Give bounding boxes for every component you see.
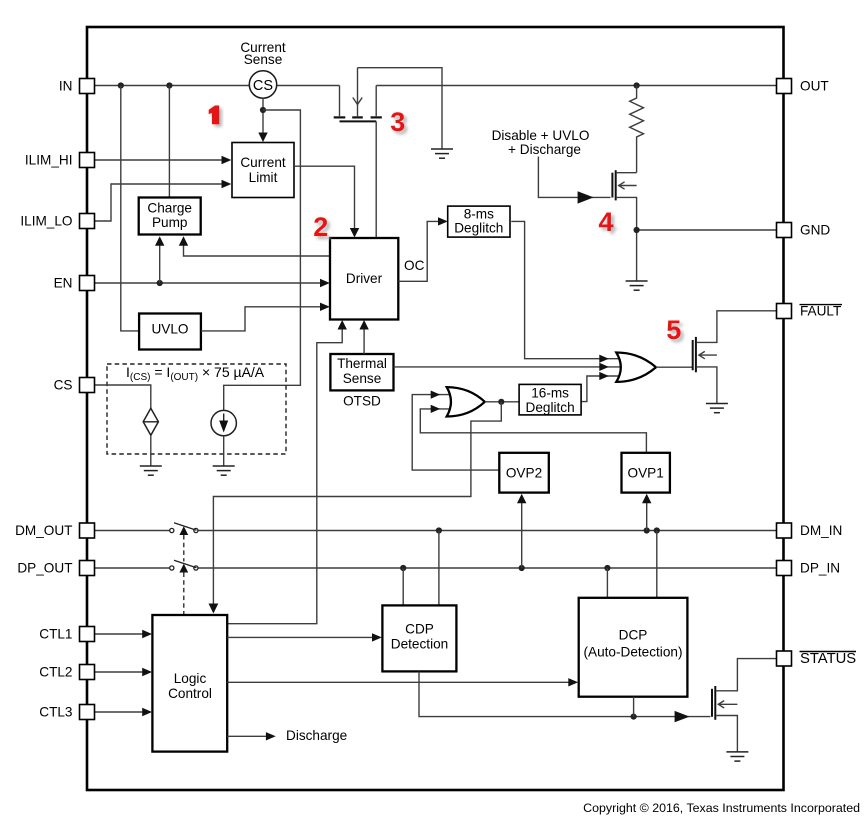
- wire: Current Limit output to Driver: [294, 166, 355, 235]
- svg-text:DP_OUT: DP_OUT: [17, 561, 72, 576]
- current source I1 (circle): [211, 410, 236, 435]
- pin DP_OUT: [80, 561, 95, 576]
- switch S1 on DM line: [170, 523, 198, 535]
- svg-text:DM_OUT: DM_OUT: [15, 523, 72, 538]
- wire: Logic Control to CDP Detection: [227, 636, 379, 638]
- wire: CTL1 input: [95, 633, 151, 635]
- wire: Thermal Sense output to OR gate: [394, 366, 627, 368]
- svg-text:CS: CS: [253, 78, 273, 94]
- node: junction to DCP: [631, 714, 637, 720]
- ground: below FET5: [706, 404, 728, 413]
- svg-text:Detection: Detection: [391, 637, 448, 652]
- pin CTL2: [80, 665, 95, 680]
- wire: CS sense line to current source: [224, 110, 301, 410]
- svg-text:Logic: Logic: [174, 671, 207, 686]
- transistor Q6 status FET: [712, 659, 777, 752]
- svg-text:16-ms: 16-ms: [531, 386, 569, 401]
- pin CS: [80, 378, 95, 393]
- ground: below current source: [213, 466, 235, 475]
- node: CS sense junction: [260, 107, 266, 113]
- svg-text:Sense: Sense: [343, 371, 382, 386]
- wire: junction up to DCP bottom: [633, 697, 635, 717]
- wire: diamond to ground: [150, 435, 152, 466]
- svg-text:IN: IN: [59, 79, 73, 94]
- svg-text:Charge: Charge: [147, 201, 192, 216]
- svg-text:CDP: CDP: [405, 622, 434, 637]
- wire: OUT rail from FET drain to OUT pin: [376, 85, 776, 87]
- svg-text:DCP: DCP: [619, 628, 648, 643]
- wire: DM to DCP: [656, 531, 658, 598]
- wire: ILIM_HI to Current Limit: [95, 159, 230, 161]
- svg-text:Control: Control: [168, 686, 212, 701]
- wire: IN to Charge Pump top: [168, 86, 170, 198]
- wire: circle source to ground: [223, 436, 225, 466]
- wire: 8-ms Deglitch output to OR gate: [511, 221, 623, 358]
- node: IN junction to Charge Pump: [166, 82, 172, 88]
- ground: below FET4: [626, 281, 648, 290]
- svg-text:5: 5: [666, 315, 681, 345]
- svg-text:Deglitch: Deglitch: [454, 220, 503, 235]
- svg-text:+ Discharge: + Discharge: [508, 142, 581, 157]
- svg-text:Deglitch: Deglitch: [526, 400, 575, 415]
- red number 1: [211, 108, 222, 127]
- wire: OR gate output to 16-ms Deglitch: [485, 401, 520, 403]
- svg-text:3: 3: [390, 107, 405, 137]
- wire: gate drive for FET4: [538, 157, 610, 198]
- svg-text:Discharge: Discharge: [286, 728, 347, 743]
- svg-text:Thermal: Thermal: [337, 356, 387, 371]
- svg-text:ILIM_LO: ILIM_LO: [20, 214, 72, 229]
- svg-text:OVP2: OVP2: [506, 466, 542, 481]
- transistor Q4 discharge FET (4): [612, 170, 636, 281]
- wire: Driver to Charge Pump second input: [184, 239, 331, 257]
- pin EN: [80, 276, 95, 291]
- block Charge Pump: [139, 198, 201, 235]
- svg-text:Pump: Pump: [152, 215, 188, 230]
- wire: Driver OC output to 8-ms Deglitch: [398, 221, 445, 281]
- ground: FET3 body: [431, 149, 453, 158]
- resistor R1 discharge: [630, 86, 644, 173]
- block Thermal Sense: [330, 354, 393, 390]
- block OVP2: [499, 453, 549, 493]
- svg-text:CTL2: CTL2: [39, 665, 72, 680]
- block Current Limit: [232, 143, 294, 198]
- block 8-ms Deglitch: [448, 206, 510, 237]
- wire: DP to CDP Detection: [402, 568, 404, 605]
- node: IN junction to UVLO: [118, 82, 124, 88]
- pin CTL1: [80, 627, 95, 642]
- wire: DM_OUT rail: [95, 530, 170, 532]
- svg-text:UVLO: UVLO: [151, 322, 188, 337]
- wire: UVLO output to Driver: [201, 307, 328, 331]
- svg-text:8-ms: 8-ms: [464, 206, 494, 221]
- dashed box: current sense model: [107, 364, 286, 454]
- transistor Q3 power FET (3): [334, 68, 382, 122]
- node: EN junction: [157, 280, 163, 286]
- pin arrows into OR gate U5: [599, 355, 609, 363]
- svg-text:OTSD: OTSD: [343, 394, 381, 409]
- wire: DP to DCP: [606, 568, 608, 598]
- wire: Discharge output: [227, 735, 266, 737]
- wire: GND rail: [637, 229, 777, 231]
- wire: OVP1 to OR gate input: [420, 409, 646, 453]
- svg-text:DM_IN: DM_IN: [800, 523, 842, 538]
- wire: IN rail from pin to FET source: [95, 85, 340, 87]
- wire: ILIM_LO to Current Limit: [95, 184, 230, 221]
- wire: OR output branch to Logic Control: [213, 402, 501, 611]
- or-gate U5 (3-input): [616, 353, 656, 382]
- wire: EN rail to Driver: [95, 282, 328, 284]
- wire: CDP output to status FET gate: [419, 672, 711, 717]
- wire: FET3 body to ground: [358, 68, 443, 149]
- node: GND junction: [634, 227, 640, 233]
- wire: EN up to Charge Pump: [159, 239, 161, 284]
- pin ILIM_HI: [80, 153, 95, 168]
- wire: IN to UVLO input: [121, 86, 139, 331]
- wire: FET3 gate to Driver: [375, 121, 377, 238]
- pin OUT: [777, 79, 792, 94]
- switch S2 on DP line: [170, 560, 198, 572]
- wire: Logic Control to DCP: [227, 681, 576, 683]
- wire: CS pin to controlled source: [95, 385, 151, 408]
- node: DM junctions: [436, 527, 442, 533]
- svg-text:FAULT: FAULT: [800, 304, 841, 319]
- svg-text:GND: GND: [800, 223, 830, 238]
- pin DM_OUT: [80, 523, 95, 538]
- svg-text:Disable + UVLO: Disable + UVLO: [492, 128, 590, 143]
- svg-text:STATUS: STATUS: [800, 651, 856, 667]
- node: OR output junction: [498, 399, 504, 405]
- wire: 16-ms Deglitch to OR gate: [580, 376, 623, 402]
- svg-text:OVP1: OVP1: [628, 466, 664, 481]
- svg-text:CS: CS: [54, 378, 73, 393]
- pin CTL3: [80, 705, 95, 720]
- pin STATUS (active low): [777, 651, 792, 666]
- svg-text:ILIM_HI: ILIM_HI: [25, 153, 73, 168]
- svg-text:DP_IN: DP_IN: [800, 561, 840, 576]
- block DCP: [579, 598, 688, 697]
- svg-text:(Auto-Detection): (Auto-Detection): [584, 645, 683, 660]
- pin FAULT (active low): [777, 304, 792, 319]
- ground: below diamond: [140, 466, 162, 475]
- svg-text:CTL1: CTL1: [39, 627, 72, 642]
- svg-text:OUT: OUT: [800, 79, 829, 94]
- wire: CTL2 input: [95, 671, 151, 673]
- block OVP1: [622, 453, 670, 493]
- block CDP Detection: [382, 605, 456, 671]
- svg-text:Current: Current: [240, 155, 286, 170]
- controlled current source (diamond): [143, 408, 158, 435]
- wire: dashed switch control from Logic: [183, 535, 185, 562]
- node: DP junctions: [400, 565, 406, 571]
- svg-text:EN: EN: [54, 276, 73, 291]
- pin ILIM_LO: [80, 214, 95, 229]
- pin DM_IN: [777, 523, 792, 538]
- block 16-ms Deglitch: [519, 384, 581, 415]
- or-gate U6 (2-input): [447, 387, 485, 416]
- wire: CTL3 input: [95, 711, 151, 713]
- block Driver U2: [330, 238, 398, 320]
- wire: Logic Control to Driver bottom: [227, 322, 342, 624]
- pin IN: [80, 79, 95, 94]
- svg-text:CTL3: CTL3: [39, 705, 72, 720]
- pin arrows into OR gate U6: [431, 391, 441, 399]
- wire: OR gate to FET5 gate: [656, 366, 693, 368]
- svg-text:Limit: Limit: [249, 170, 278, 185]
- svg-text:OC: OC: [404, 258, 425, 273]
- ground: below status FET: [726, 752, 748, 761]
- block UVLO: [139, 314, 201, 350]
- wire: Thermal Sense up to Driver: [363, 322, 365, 354]
- current sense circle CS: [249, 71, 276, 98]
- wire: CS drop to Current Limit: [262, 98, 264, 140]
- wire: DP_OUT rail: [95, 567, 170, 569]
- svg-text:Driver: Driver: [346, 271, 383, 286]
- block Logic Control: [152, 615, 227, 752]
- pin GND: [777, 223, 792, 238]
- wire: OVP2 to OR gate input: [412, 395, 499, 471]
- wire: DM to CDP Detection: [438, 531, 440, 606]
- svg-text:2: 2: [313, 212, 328, 242]
- IC boundary frame: [87, 27, 784, 790]
- node: OUT junction at discharge resistor: [634, 82, 640, 88]
- svg-text:Copyright © 2016, Texas Instru: Copyright © 2016, Texas Instruments Inco…: [583, 801, 860, 815]
- wire: DM to OVP1: [646, 496, 648, 531]
- svg-text:4: 4: [599, 207, 614, 237]
- transistor Q5 fault FET (5): [693, 311, 777, 404]
- svg-text:Sense: Sense: [244, 52, 283, 67]
- pin DP_IN: [777, 561, 792, 576]
- wire: DP to OVP2: [521, 496, 523, 569]
